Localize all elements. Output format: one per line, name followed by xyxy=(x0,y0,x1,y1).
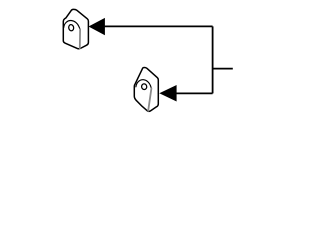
part 1 (upper-left clip with hole) xyxy=(63,9,88,48)
wire from vertical to arrow 2 xyxy=(176,92,212,94)
arrow 2 (points at part 2) xyxy=(159,85,176,102)
part 1 face arch xyxy=(64,20,80,29)
part 1 side edge (gray) xyxy=(79,29,81,48)
part 1 hole xyxy=(68,24,74,31)
tick stub on vertical wire xyxy=(213,68,233,70)
arrow 1 (points at part 1) xyxy=(89,18,105,35)
part 2 hole xyxy=(141,83,147,89)
vertical wire on right xyxy=(212,26,214,93)
part 2 side edge (gray) xyxy=(148,88,151,110)
part 1 body outline xyxy=(63,9,88,48)
wire from arrow 1 to right vertical xyxy=(105,25,213,27)
part 2 face arch xyxy=(136,80,152,89)
part 2 body outline xyxy=(134,67,158,111)
part 2 (lower clip with hole) xyxy=(134,67,158,111)
